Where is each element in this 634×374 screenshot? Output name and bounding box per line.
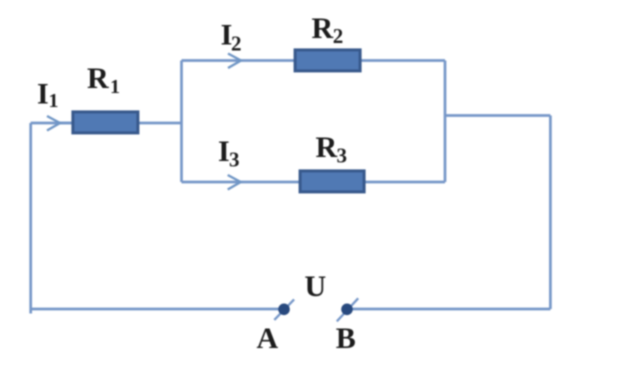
current arrow I3 bbox=[228, 175, 241, 190]
svg-text:2: 2 bbox=[231, 31, 242, 55]
svg-text:U: U bbox=[305, 270, 327, 303]
svg-text:R: R bbox=[87, 62, 109, 95]
resistor R3 bbox=[300, 171, 364, 192]
resistor R1 bbox=[73, 112, 138, 133]
wire top branch bbox=[182, 59, 295, 62]
svg-text:3: 3 bbox=[337, 143, 348, 167]
terminal B tick bbox=[337, 298, 358, 321]
wire bottom right bbox=[347, 308, 550, 311]
terminal A tick bbox=[274, 299, 294, 320]
resistor R2 bbox=[295, 50, 360, 71]
wire junction vertical bbox=[180, 61, 183, 183]
svg-text:R: R bbox=[316, 131, 338, 164]
current arrow I1 bbox=[47, 116, 60, 131]
wire inner right vertical bbox=[444, 61, 447, 183]
wire bottom branch bbox=[182, 181, 300, 184]
wire main horizontal with R1 bbox=[31, 122, 72, 125]
svg-text:I: I bbox=[37, 78, 49, 111]
svg-text:B: B bbox=[336, 322, 356, 355]
svg-text:2: 2 bbox=[333, 24, 344, 48]
svg-text:R: R bbox=[312, 12, 334, 45]
node B bbox=[341, 304, 353, 316]
svg-text:A: A bbox=[257, 322, 279, 355]
wire bottom left bbox=[31, 308, 284, 311]
svg-text:1: 1 bbox=[49, 90, 59, 112]
wire right vertical bbox=[549, 116, 552, 310]
svg-text:3: 3 bbox=[229, 148, 240, 172]
svg-text:I: I bbox=[218, 135, 230, 168]
current arrow I2 bbox=[228, 54, 241, 69]
wire left vertical bbox=[29, 123, 32, 314]
node A bbox=[278, 304, 290, 316]
wire middle right horizontal bbox=[445, 114, 550, 117]
svg-text:1: 1 bbox=[110, 76, 120, 98]
